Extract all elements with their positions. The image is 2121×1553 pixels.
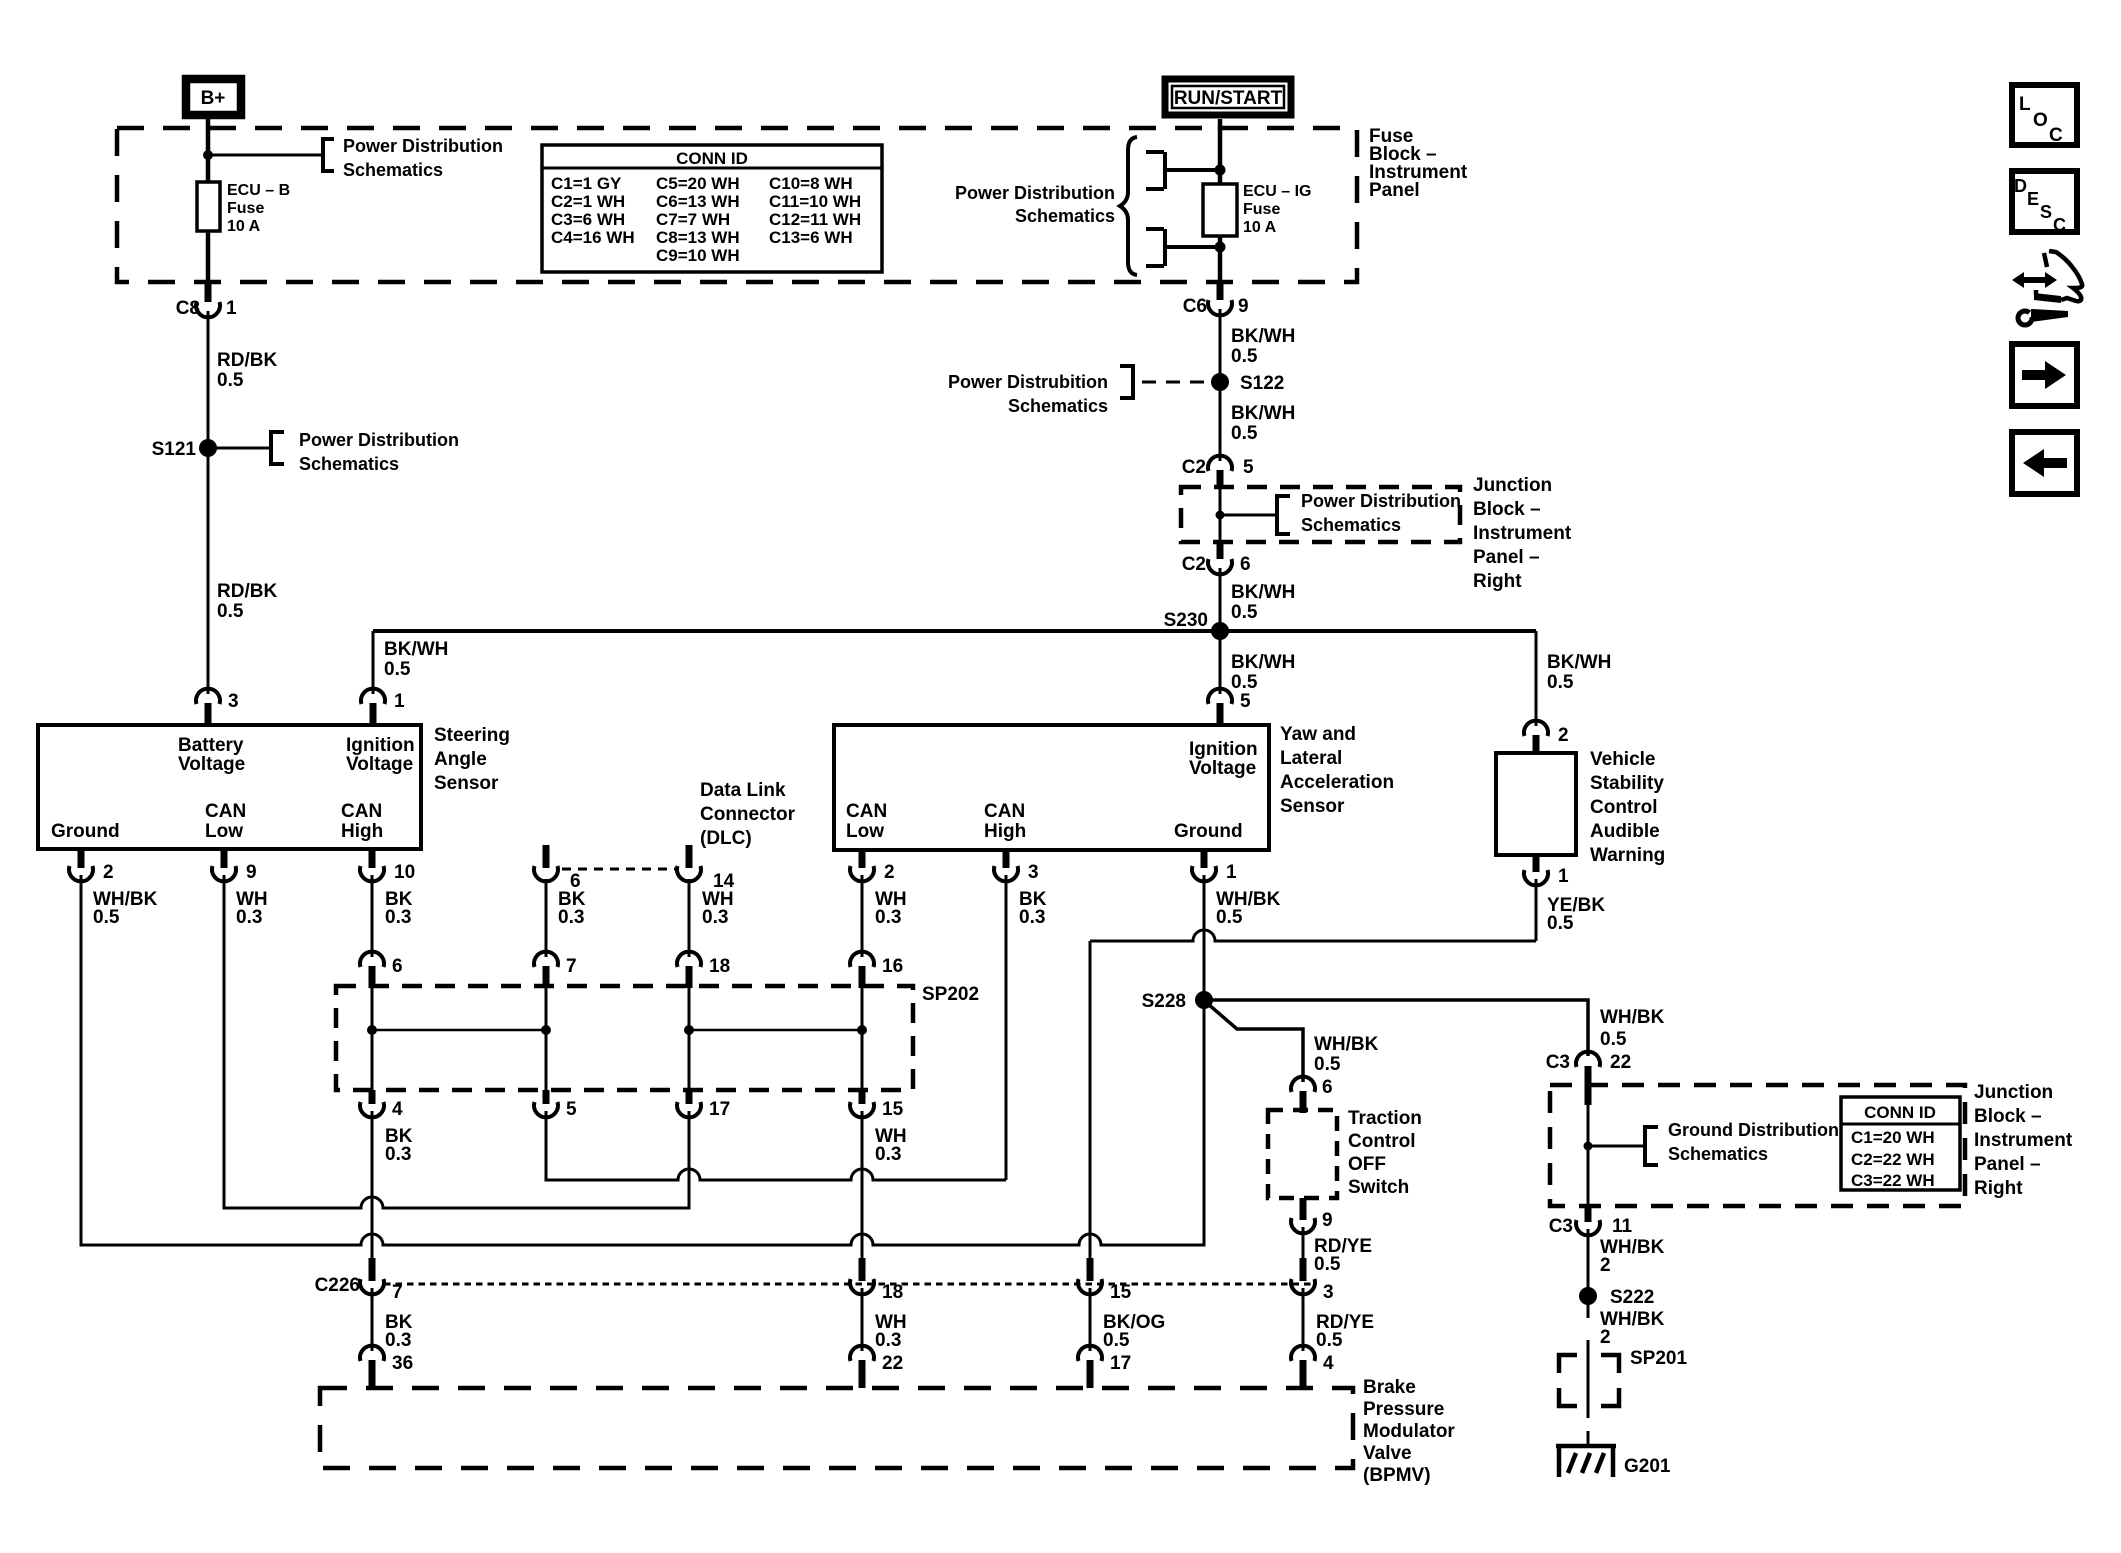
connector DLC pin 6 xyxy=(534,866,558,881)
svg-text:C3: C3 xyxy=(1546,1052,1570,1073)
svg-text:ECU – B: ECU – B xyxy=(227,182,290,199)
svg-text:18: 18 xyxy=(709,956,730,977)
connector C226 pin 3 xyxy=(1291,1279,1315,1294)
svg-text:Schematics: Schematics xyxy=(1301,515,1401,535)
svg-text:(DLC): (DLC) xyxy=(700,828,752,849)
ground symbol G201 xyxy=(1556,1446,1616,1477)
node SP202 bus B right xyxy=(857,1025,867,1035)
node SP202 bus B left xyxy=(684,1025,694,1035)
wire C226-18 to BPMV WH xyxy=(861,1288,864,1351)
svg-text:C1=20 WH: C1=20 WH xyxy=(1851,1128,1935,1147)
svg-text:16: 16 xyxy=(882,956,903,977)
svg-text:Battery: Battery xyxy=(178,735,244,756)
wire C226-3 to BPMV RD/YE xyxy=(1302,1288,1305,1351)
wire S222 to SP201 xyxy=(1587,1340,1590,1418)
icon car outline xyxy=(2034,251,2082,303)
svg-text:RD/BK: RD/BK xyxy=(217,350,277,371)
svg-text:High: High xyxy=(984,821,1026,842)
svg-text:CAN: CAN xyxy=(846,801,887,822)
connector yaw pin 5 xyxy=(1208,689,1232,704)
svg-text:Power Distribution: Power Distribution xyxy=(955,183,1115,203)
C226 dotted connector line xyxy=(384,1283,1312,1286)
svg-text:Power Distribution: Power Distribution xyxy=(1301,491,1461,511)
svg-text:S230: S230 xyxy=(1164,610,1208,631)
svg-text:Voltage: Voltage xyxy=(1189,758,1256,779)
splice S228 xyxy=(1195,991,1213,1009)
svg-text:10: 10 xyxy=(394,862,415,883)
svg-text:0.5: 0.5 xyxy=(1103,1330,1130,1351)
wire SP201 to G201 xyxy=(1587,1431,1590,1446)
svg-text:Valve: Valve xyxy=(1363,1443,1412,1464)
svg-text:BK/WH: BK/WH xyxy=(1231,652,1295,673)
connector BPMV pin 36 xyxy=(360,1346,384,1361)
connector C226 pin 18 stub xyxy=(859,1258,866,1281)
svg-text:BK/WH: BK/WH xyxy=(1547,652,1611,673)
svg-text:Pressure: Pressure xyxy=(1363,1399,1444,1420)
connector steering pin 3 stub xyxy=(205,703,212,725)
svg-text:0.3: 0.3 xyxy=(385,1330,411,1351)
svg-text:(BPMV): (BPMV) xyxy=(1363,1465,1431,1486)
wire SP202 internal 16-15 xyxy=(861,970,864,1090)
wire C8 to S121 RD/BK xyxy=(207,311,210,448)
dashed link DLC xyxy=(562,868,676,871)
connector VSC pin 1 xyxy=(1524,870,1548,885)
brake pressure modulator valve BPMV dashed box xyxy=(320,1388,1353,1468)
svg-text:5: 5 xyxy=(1243,457,1254,478)
connector yaw pin 3 xyxy=(994,866,1018,881)
svg-text:C1=1 GY: C1=1 GY xyxy=(551,174,622,193)
svg-text:7: 7 xyxy=(392,1282,403,1303)
svg-text:3: 3 xyxy=(1323,1282,1334,1303)
splice S121 xyxy=(199,439,217,457)
svg-text:0.3: 0.3 xyxy=(236,907,262,928)
svg-text:Ground: Ground xyxy=(51,821,120,842)
wire SP202 internal 6-4 xyxy=(371,970,374,1090)
svg-text:36: 36 xyxy=(392,1353,413,1374)
svg-text:0.5: 0.5 xyxy=(1216,907,1243,928)
svg-text:Lateral: Lateral xyxy=(1280,748,1342,769)
icon DESC box xyxy=(2012,171,2077,232)
icon arrow right xyxy=(2022,361,2066,389)
box steering angle sensor xyxy=(38,725,421,849)
svg-text:Ground: Ground xyxy=(1174,821,1243,842)
svg-text:Sensor: Sensor xyxy=(1280,796,1345,817)
connector SP202 pin 18 xyxy=(677,952,701,967)
connector SP202 pin 6 xyxy=(360,952,384,967)
svg-text:Voltage: Voltage xyxy=(346,754,413,775)
CONN ID table top xyxy=(542,145,882,272)
svg-text:Steering: Steering xyxy=(434,725,510,746)
svg-text:7: 7 xyxy=(566,956,577,977)
svg-text:Stability: Stability xyxy=(1590,773,1664,794)
splice pack SP202 dashed box xyxy=(336,986,913,1090)
label fuse ECU-IG xyxy=(1243,183,1311,236)
wire DLC14 to SP202 xyxy=(688,879,691,957)
connector BPMV pin 22 xyxy=(850,1346,874,1361)
wire through junction block right xyxy=(1587,1105,1590,1206)
wire S121 to bracket xyxy=(208,447,271,450)
svg-text:C: C xyxy=(2053,215,2066,235)
svg-text:1: 1 xyxy=(226,298,237,319)
power symbol B+ xyxy=(186,79,241,115)
svg-text:3: 3 xyxy=(228,691,239,712)
svg-text:Voltage: Voltage xyxy=(178,754,245,775)
svg-text:Fuse: Fuse xyxy=(1243,201,1280,218)
svg-text:O: O xyxy=(2033,110,2048,131)
svg-text:CAN: CAN xyxy=(341,801,382,822)
traction control off switch dashed box xyxy=(1268,1110,1337,1198)
svg-text:0.3: 0.3 xyxy=(385,907,411,928)
wire SP202 bus B xyxy=(689,1029,862,1032)
wire C226-7 to BPMV BK xyxy=(371,1288,374,1351)
connector steering pin 9 xyxy=(212,866,236,881)
fuse block instrument panel dashed box xyxy=(117,128,1357,282)
svg-text:1: 1 xyxy=(1558,866,1569,887)
svg-text:CONN ID: CONN ID xyxy=(1864,1103,1936,1122)
wire fuse ECU-IG down xyxy=(1218,236,1223,282)
bracket callout power distribution junction block xyxy=(1277,494,1290,536)
svg-text:0.3: 0.3 xyxy=(558,907,584,928)
connector steering pin 10 stub xyxy=(369,849,376,868)
connector VSC pin 1 stub xyxy=(1533,855,1540,872)
node junction block xyxy=(1216,511,1225,520)
connector BPMV pin 4 stub xyxy=(1300,1360,1307,1388)
svg-text:ECU – IG: ECU – IG xyxy=(1243,183,1311,200)
svg-text:Ignition: Ignition xyxy=(1189,739,1258,760)
svg-text:C5=20 WH: C5=20 WH xyxy=(656,174,740,193)
svg-text:0.5: 0.5 xyxy=(1314,1254,1341,1275)
svg-text:Connector: Connector xyxy=(700,804,796,825)
wire C3-11 to S222 WH/BK xyxy=(1587,1229,1590,1318)
node SP202 bus A right xyxy=(541,1025,551,1035)
wire yaw pin1 WH/BK to S228 xyxy=(1203,875,1206,996)
svg-text:Ground Distribution: Ground Distribution xyxy=(1668,1120,1839,1140)
svg-text:Control: Control xyxy=(1348,1131,1416,1152)
node SP202 bus A left xyxy=(367,1025,377,1035)
svg-text:C7=7 WH: C7=7 WH xyxy=(656,210,730,229)
wire steering pin10 to SP202 xyxy=(371,875,374,957)
svg-text:C2=22 WH: C2=22 WH xyxy=(1851,1150,1935,1169)
connector SP202 pin 17 stub xyxy=(686,1090,693,1104)
svg-text:0.5: 0.5 xyxy=(1231,602,1258,623)
svg-text:BK/WH: BK/WH xyxy=(1231,326,1295,347)
connector SP202 pin 16 stub xyxy=(859,966,866,988)
label CONN ID col3 xyxy=(769,174,861,247)
connector yaw pin 2 xyxy=(850,866,874,881)
svg-text:Modulator: Modulator xyxy=(1363,1421,1455,1442)
junction block right dashed box xyxy=(1550,1085,1965,1206)
svg-text:4: 4 xyxy=(392,1099,403,1120)
svg-text:Schematics: Schematics xyxy=(343,160,443,180)
svg-text:BK/WH: BK/WH xyxy=(1231,403,1295,424)
node hook upper xyxy=(1215,165,1226,176)
connector VSC pin 2 xyxy=(1524,721,1548,736)
svg-text:17: 17 xyxy=(1110,1353,1131,1374)
svg-text:Warning: Warning xyxy=(1590,845,1665,866)
svg-text:B+: B+ xyxy=(201,88,226,109)
wire S121 to steering pin 3 xyxy=(207,448,210,694)
svg-text:Junction: Junction xyxy=(1974,1082,2053,1103)
svg-text:Brake: Brake xyxy=(1363,1377,1416,1398)
connector SP202 pin 7 stub xyxy=(543,966,550,988)
svg-text:C10=8 WH: C10=8 WH xyxy=(769,174,853,193)
svg-text:CAN: CAN xyxy=(984,801,1025,822)
connector C226 pin 18 xyxy=(850,1279,874,1294)
svg-text:0.3: 0.3 xyxy=(875,907,901,928)
svg-text:2: 2 xyxy=(103,862,114,883)
splice S122 xyxy=(1211,373,1229,391)
icon arrow left box xyxy=(2012,432,2077,494)
svg-text:BK/WH: BK/WH xyxy=(384,639,448,660)
connector traction pin 6 stub xyxy=(1300,1091,1307,1113)
connector steering pin 10 xyxy=(360,866,384,881)
connector BPMV pin 17 stub xyxy=(1087,1360,1094,1388)
svg-text:17: 17 xyxy=(709,1099,730,1120)
svg-text:0.3: 0.3 xyxy=(1019,907,1045,928)
connector yaw pin 5 stub xyxy=(1217,703,1224,725)
svg-text:0.5: 0.5 xyxy=(1231,672,1258,693)
svg-text:L: L xyxy=(2019,94,2031,115)
wire S122 to C2-5 xyxy=(1219,382,1222,461)
svg-text:S: S xyxy=(2040,202,2052,222)
svg-text:CAN: CAN xyxy=(205,801,246,822)
connector SP202 pin 15 xyxy=(850,1102,874,1117)
svg-text:C3: C3 xyxy=(1549,1216,1573,1237)
connector SP202 pin 4 xyxy=(360,1102,384,1117)
connector traction pin 9 stub xyxy=(1300,1198,1307,1220)
connector BPMV pin 17 xyxy=(1078,1346,1102,1361)
connector yaw pin 2 stub xyxy=(859,849,866,868)
connector C2 pin 6 xyxy=(1208,559,1232,574)
connector DLC pin 6 stub xyxy=(543,845,550,868)
label CONN ID right rows xyxy=(1851,1128,1935,1190)
icon arrow left xyxy=(2023,449,2067,477)
connector steering pin 1 stub xyxy=(370,703,377,725)
svg-text:0.3: 0.3 xyxy=(875,1330,901,1351)
svg-text:C3=6 WH: C3=6 WH xyxy=(551,210,625,229)
svg-text:E: E xyxy=(2027,189,2039,209)
svg-text:Low: Low xyxy=(846,821,884,842)
connector C3 pin 22 xyxy=(1576,1052,1600,1067)
svg-text:Fuse: Fuse xyxy=(227,200,264,217)
label icon DESC xyxy=(2014,176,2066,235)
svg-text:0.5: 0.5 xyxy=(217,370,244,391)
svg-text:5: 5 xyxy=(566,1099,577,1120)
wire SP202 bus A xyxy=(372,1029,546,1032)
wire CAN low steering pin9 link xyxy=(224,875,689,1208)
power symbol RUN/START xyxy=(1165,79,1291,115)
connector SP202 pin 5 stub xyxy=(543,1090,550,1104)
wire RUN/START to fuse xyxy=(1218,119,1223,184)
svg-text:Yaw and: Yaw and xyxy=(1280,724,1356,745)
svg-text:OFF: OFF xyxy=(1348,1154,1386,1175)
connector steering pin 1 xyxy=(361,689,385,704)
label CONN ID col1 xyxy=(551,174,635,247)
label CONN ID col2 xyxy=(656,174,740,265)
svg-text:9: 9 xyxy=(246,862,257,883)
svg-text:0.5: 0.5 xyxy=(217,601,244,622)
svg-text:WH/BK: WH/BK xyxy=(1314,1034,1379,1055)
wire S228 diagonal to traction switch xyxy=(1208,1004,1303,1082)
wire C2-6 to S230 BK/WH xyxy=(1219,568,1222,631)
wire yaw pin3 to CAN high link xyxy=(1005,875,1008,1180)
connector steering pin 3 xyxy=(196,689,220,704)
svg-text:10 A: 10 A xyxy=(227,218,261,235)
connector steering pin 9 stub xyxy=(221,849,228,868)
connector steering pin 2 xyxy=(69,866,93,881)
svg-text:C9=10 WH: C9=10 WH xyxy=(656,246,740,265)
svg-text:C11=10 WH: C11=10 WH xyxy=(769,192,861,211)
connector BPMV pin 36 stub xyxy=(369,1360,376,1388)
svg-text:Instrument: Instrument xyxy=(1974,1130,2073,1151)
wire SP202 internal 7-5 xyxy=(545,970,548,1090)
svg-text:0.3: 0.3 xyxy=(702,907,728,928)
wire DLC6 to SP202 xyxy=(545,879,548,957)
svg-text:3: 3 xyxy=(1028,862,1039,883)
wire B+ to fuse xyxy=(206,119,211,182)
svg-text:Power Distribution: Power Distribution xyxy=(343,136,503,156)
wire S230 to yaw pin 5 xyxy=(1219,631,1222,694)
connector C2 pin 5 xyxy=(1208,456,1232,471)
svg-text:Sensor: Sensor xyxy=(434,773,499,794)
svg-text:9: 9 xyxy=(1238,296,1249,317)
svg-text:Acceleration: Acceleration xyxy=(1280,772,1394,793)
wire fuse to C8 xyxy=(206,231,211,282)
wire S228 to C3-22 xyxy=(1204,1000,1588,1056)
terminal hook upper ECU-IG xyxy=(1146,152,1220,189)
svg-text:5: 5 xyxy=(1240,691,1251,712)
connector traction pin 6 xyxy=(1291,1077,1315,1092)
svg-text:Power Distrubition: Power Distrubition xyxy=(948,372,1108,392)
svg-text:10 A: 10 A xyxy=(1243,219,1277,236)
wire S230 bus horizontal xyxy=(373,629,1536,633)
svg-text:C2: C2 xyxy=(1182,457,1206,478)
fuse ECU-IG xyxy=(1203,184,1237,236)
svg-text:4: 4 xyxy=(1323,1353,1334,1374)
svg-text:C12=11 WH: C12=11 WH xyxy=(769,210,861,229)
connector traction pin 9 xyxy=(1291,1218,1315,1233)
svg-text:6: 6 xyxy=(1322,1077,1333,1098)
junction block instrument panel dashed box xyxy=(1181,487,1460,542)
connector C226 pin 3 stub xyxy=(1300,1258,1307,1281)
svg-text:2: 2 xyxy=(1600,1327,1611,1348)
wire SP202 pin15 to C226 WH xyxy=(861,1111,864,1258)
connector C2 pin 5 stub xyxy=(1217,470,1224,487)
svg-text:2: 2 xyxy=(1558,725,1569,746)
svg-text:15: 15 xyxy=(882,1099,904,1120)
svg-text:C8: C8 xyxy=(176,298,200,319)
svg-text:Low: Low xyxy=(205,821,243,842)
svg-text:1: 1 xyxy=(1226,862,1237,883)
connector C3 pin 22 stub xyxy=(1585,1066,1592,1105)
label fuse ECU-B xyxy=(227,182,290,235)
connector VSC pin 2 stub xyxy=(1533,735,1540,753)
icon wrench xyxy=(2018,306,2068,325)
svg-text:C2=1 WH: C2=1 WH xyxy=(551,192,625,211)
wire VSC pin1 YE/BK link xyxy=(1090,879,1536,1258)
connector C226 pin 7 stub xyxy=(369,1258,376,1281)
bracket callout power distrubition S122 xyxy=(1120,364,1133,400)
splice S230 xyxy=(1211,622,1229,640)
icon arrow right box xyxy=(2012,344,2077,406)
wire node to bracket ground distribution xyxy=(1588,1145,1645,1148)
CONN ID table right xyxy=(1841,1097,1960,1190)
svg-text:22: 22 xyxy=(1610,1052,1631,1073)
connector SP202 pin 7 xyxy=(534,952,558,967)
svg-text:G201: G201 xyxy=(1624,1456,1671,1477)
svg-text:Schematics: Schematics xyxy=(299,454,399,474)
svg-text:Panel: Panel xyxy=(1369,180,1420,201)
wire CAN high link horizontal xyxy=(546,1111,1006,1180)
svg-text:RUN/START: RUN/START xyxy=(1174,88,1283,109)
wire C226-15 to BPMV BK/OG xyxy=(1089,1288,1092,1351)
svg-text:Control: Control xyxy=(1590,797,1658,818)
connector DLC pin 14 stub xyxy=(686,845,693,868)
svg-text:22: 22 xyxy=(882,1353,903,1374)
svg-text:C: C xyxy=(2049,125,2063,146)
svg-text:0.5: 0.5 xyxy=(1316,1330,1343,1351)
svg-text:Schematics: Schematics xyxy=(1668,1144,1768,1164)
connector C8 pin 1 stub xyxy=(205,282,212,302)
svg-text:WH/BK: WH/BK xyxy=(1600,1007,1665,1028)
connector yaw pin 1 stub xyxy=(1201,849,1208,868)
svg-text:C13=6 WH: C13=6 WH xyxy=(769,228,853,247)
connector DLC pin 14 xyxy=(677,866,701,881)
box vehicle stability control audible warning xyxy=(1496,753,1576,855)
wire node to bracket xyxy=(208,154,322,157)
svg-text:Block –: Block – xyxy=(1473,499,1541,520)
brace power distribution schematics ECU-IG xyxy=(1120,137,1137,275)
svg-text:0.5: 0.5 xyxy=(384,659,411,680)
svg-text:0.5: 0.5 xyxy=(1231,346,1258,367)
svg-text:Vehicle: Vehicle xyxy=(1590,749,1656,770)
svg-text:0.5: 0.5 xyxy=(1314,1054,1341,1075)
svg-text:Audible: Audible xyxy=(1590,821,1660,842)
connector C8 pin 1 xyxy=(196,302,220,317)
wire ground net steering pin2 to S228 xyxy=(81,875,1204,1245)
svg-text:Right: Right xyxy=(1974,1178,2023,1199)
svg-text:C226: C226 xyxy=(315,1275,360,1296)
svg-text:CONN ID: CONN ID xyxy=(676,149,748,168)
wire through junction block xyxy=(1219,487,1222,542)
connector yaw pin 3 stub xyxy=(1003,849,1010,868)
label icon LOC xyxy=(2019,94,2063,146)
svg-text:1: 1 xyxy=(394,691,405,712)
wire node to bracket junction block xyxy=(1220,514,1277,517)
svg-text:11: 11 xyxy=(1612,1216,1633,1237)
connector SP202 pin 18 stub xyxy=(686,966,693,988)
svg-text:S228: S228 xyxy=(1142,991,1186,1012)
svg-text:S121: S121 xyxy=(152,439,197,460)
connector C3 pin 11 stub xyxy=(1585,1206,1592,1222)
connector SP202 pin 17 xyxy=(677,1102,701,1117)
svg-text:0.5: 0.5 xyxy=(1600,1029,1627,1050)
svg-text:High: High xyxy=(341,821,383,842)
svg-text:15: 15 xyxy=(1110,1282,1132,1303)
splice pack SP201 dashed corners xyxy=(1559,1355,1619,1406)
svg-text:0.5: 0.5 xyxy=(1231,423,1258,444)
connector BPMV pin 4 xyxy=(1291,1346,1315,1361)
svg-text:Ignition: Ignition xyxy=(346,735,415,756)
bracket callout power distribution S121 xyxy=(271,430,284,466)
svg-text:S222: S222 xyxy=(1610,1287,1654,1308)
connector SP202 pin 15 stub xyxy=(859,1090,866,1104)
svg-text:C3=22 WH: C3=22 WH xyxy=(1851,1171,1935,1190)
svg-text:0.3: 0.3 xyxy=(875,1144,901,1165)
svg-text:BK/WH: BK/WH xyxy=(1231,582,1295,603)
svg-text:RD/BK: RD/BK xyxy=(217,581,277,602)
wire SP202 pin4 to C226 BK xyxy=(371,1111,374,1258)
